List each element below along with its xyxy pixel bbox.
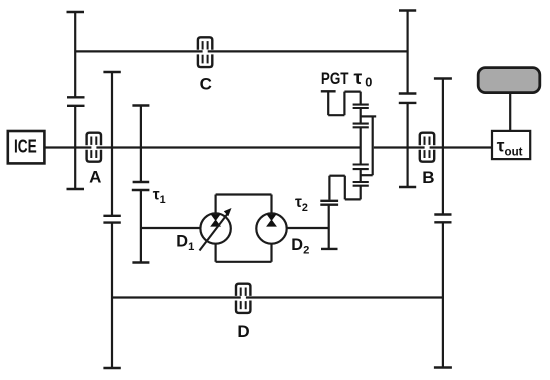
node left link v1 lower (engine shaft support) (67, 106, 85, 189)
svg-text:C: C (200, 75, 212, 94)
node link v2 upper (103, 72, 120, 216)
node link v2 lower (D layshaft support) (103, 223, 120, 368)
node PGT main axis (360, 92, 362, 200)
wire motor D2 to tau2 link (287, 227, 329, 229)
clutch B (420, 133, 434, 162)
wire engine shaft clutch A to PGT (96, 146, 360, 148)
node PGT mesh 1 (353, 105, 369, 108)
svg-text:ICE: ICE (14, 137, 37, 157)
wire layshaft D right segment (246, 296, 443, 298)
node PGT ring to output branch (361, 116, 377, 175)
node link v6 upper (434, 79, 452, 215)
wire hydraulic loop top rail (216, 193, 272, 195)
node left link v1 upper (C layshaft support) (67, 12, 85, 97)
wire D1 bottom stub (215, 244, 217, 262)
node PGT carrier lower bracket (320, 176, 360, 201)
wire engine shaft ICE to clutch A (45, 146, 92, 148)
wire layshaft C left segment (75, 50, 202, 52)
clutch C (198, 37, 212, 67)
node PGT mesh 4 (353, 182, 369, 186)
clutch D (236, 284, 250, 313)
wire tau1 link to pump D1 (141, 227, 201, 229)
vehicle load block (grey) (478, 68, 540, 93)
wire output shaft clutch B to Tout box (430, 146, 491, 148)
wire D1 top stub (215, 195, 217, 214)
svg-text:A: A (89, 168, 101, 187)
node right link v5 upper (C layshaft support) (399, 11, 417, 94)
motor D2 (fixed displacement unit) (256, 213, 286, 243)
wire layshaft C right segment (208, 50, 408, 52)
wire D2 top stub (270, 195, 272, 214)
wire load to Tout box (509, 93, 511, 131)
node PGT mesh 2 (353, 124, 369, 128)
node PGT mesh 3 (353, 165, 369, 170)
node link v6 lower (D layshaft support) (434, 222, 452, 367)
node tau2 link (320, 205, 338, 249)
wire layshaft D left segment (112, 296, 241, 298)
node right link v5 lower (399, 103, 417, 187)
svg-text:B: B (422, 168, 434, 187)
Tout box (492, 131, 530, 159)
ICE box (8, 131, 45, 163)
svg-text:D: D (237, 322, 249, 341)
wire hydraulic loop bottom rail (216, 261, 272, 263)
clutch A (87, 133, 101, 162)
node link v3 (engine shaft gear) (132, 106, 149, 183)
wire D2 bottom stub (270, 244, 272, 262)
node tau1 link (132, 190, 150, 263)
wire output shaft PGT to clutch B (374, 146, 425, 148)
node PGT carrier upper bracket (321, 91, 361, 115)
pump D1 (variable displacement unit) (200, 208, 232, 251)
